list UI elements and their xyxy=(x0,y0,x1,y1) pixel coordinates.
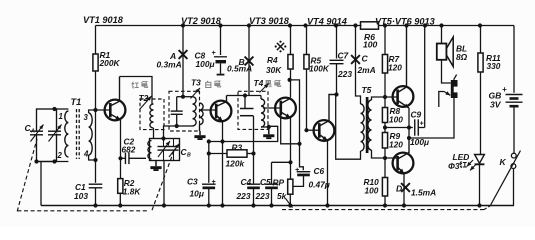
svg-text:+: + xyxy=(212,50,216,57)
wire: tank to ground bus xyxy=(163,161,165,206)
variable capacitor C1a main gang xyxy=(30,125,44,142)
wire: B+ top supply rail xyxy=(96,25,515,27)
battery GB 3V xyxy=(489,91,523,154)
wire: VT1 emitter down xyxy=(118,120,122,161)
svg-text:+: + xyxy=(502,85,507,94)
wire: T5 primary bottom return to VT4 collector node xyxy=(336,95,361,160)
svg-text:K: K xyxy=(500,157,507,167)
svg-text:200K: 200K xyxy=(99,58,121,68)
label T1 xyxy=(71,97,82,107)
resistor R2 1.8K xyxy=(118,158,142,205)
wire: T3 secondary to ground symbol xyxy=(199,125,201,132)
svg-text:1: 1 xyxy=(59,112,63,121)
wire: R10 to bus xyxy=(384,196,386,206)
transformer T2 shield dashed box xyxy=(140,99,164,130)
wire: R11 to LED xyxy=(480,72,482,155)
T3 internal capacitor xyxy=(171,97,183,126)
wire: rail to C8 xyxy=(220,26,222,56)
svg-text:223: 223 xyxy=(337,69,352,79)
label Cb xyxy=(181,147,192,159)
junction dots on ground bus xyxy=(93,203,481,207)
wire: rail to T5 primary top xyxy=(356,26,361,105)
transistor VT2 xyxy=(211,96,232,122)
resistor R5 100K xyxy=(304,55,330,74)
transformer T4 primary winding xyxy=(261,96,265,128)
wire: T3 secondary tap to VT2 base xyxy=(200,109,217,111)
wire: C6 bottom to RP wiper xyxy=(293,175,304,186)
svg-text:+: + xyxy=(212,179,216,186)
LED diode xyxy=(467,155,485,171)
transistor VT6 xyxy=(393,138,414,174)
oscillator tank winding xyxy=(148,141,152,160)
svg-text:3: 3 xyxy=(84,113,89,122)
svg-text:T1: T1 xyxy=(71,97,82,107)
transformer T1 core xyxy=(77,109,80,159)
wire: VT6 collector to midpoint xyxy=(407,128,411,141)
svg-text:0.5mA: 0.5mA xyxy=(227,64,252,74)
svg-text:2mA: 2mA xyxy=(357,65,376,75)
capacitor C7 223 xyxy=(330,51,353,80)
ground symbol below T3 xyxy=(194,131,205,140)
transformer T3 shield dashed box xyxy=(169,91,200,131)
wire: rail to R4 xyxy=(290,26,292,55)
capacitor C4 223 xyxy=(236,154,261,206)
dashed gang link diagonal to C1a xyxy=(17,139,37,211)
transistor VT3 xyxy=(275,98,296,119)
wire: base node down to T1 pin4 node xyxy=(93,110,97,162)
svg-text:T4: T4 xyxy=(254,78,264,88)
test point C 2mA xyxy=(351,54,376,76)
wire: rail to T3 through test point A xyxy=(182,26,184,97)
resistor R4 30K xyxy=(266,55,293,76)
speaker BL 8ohm xyxy=(437,37,468,67)
dashed gang link diagonal to C1b xyxy=(152,148,175,210)
svg-text:0.47μ: 0.47μ xyxy=(309,180,330,190)
junction dots on rail xyxy=(181,23,482,27)
svg-text:R3: R3 xyxy=(232,143,243,153)
tuning gang loop box xyxy=(34,107,68,164)
transformer T1 primary winding xyxy=(65,111,69,157)
resistor R11 330 xyxy=(478,53,501,72)
svg-text:VT1 9018: VT1 9018 xyxy=(83,15,124,25)
svg-text:10μ: 10μ xyxy=(190,189,204,199)
wire: rail to T4 through test point B xyxy=(248,26,250,96)
svg-text:C7: C7 xyxy=(338,51,349,61)
transformer T1 secondary winding xyxy=(89,113,93,155)
T4 internal top wire xyxy=(242,93,262,97)
transformer T3 secondary winding xyxy=(200,103,204,125)
wire: VT5 emitter to midpoint xyxy=(407,108,411,130)
svg-text:VT4 9014: VT4 9014 xyxy=(307,17,347,27)
svg-text:C3: C3 xyxy=(187,177,198,187)
wire: speaker to jack xyxy=(442,60,451,83)
wire: T1 secondary bottom to pin4 node xyxy=(89,155,96,160)
svg-text:30K: 30K xyxy=(266,65,282,75)
svg-text:100: 100 xyxy=(363,40,378,50)
wire: LED to bus xyxy=(479,164,481,205)
capacitor C6 0.47u xyxy=(295,166,330,190)
wire: VT1 bias branch from rail xyxy=(95,26,97,55)
transistor VT4 xyxy=(314,95,337,141)
wire: VT6 base node down to R10 xyxy=(384,158,386,178)
svg-text:RP: RP xyxy=(273,178,285,188)
wire: C5 top to VT3 emitter node xyxy=(272,160,293,164)
pin 1 xyxy=(59,112,63,121)
T3 internal bottom wire xyxy=(175,124,193,128)
svg-text:C: C xyxy=(362,54,369,64)
wire: VT3 base feedback wire xyxy=(281,115,300,144)
T2 tuning arrow xyxy=(140,96,152,110)
wire: jack to output midpoint xyxy=(409,98,454,138)
svg-text:C5: C5 xyxy=(260,177,271,187)
svg-text:2: 2 xyxy=(57,151,63,160)
resistor R10 100 xyxy=(364,177,388,196)
transistor VT1 xyxy=(105,77,126,121)
wire: T2 winding bottom into oscillator tank xyxy=(153,128,155,139)
dashed gang link line left xyxy=(17,210,147,212)
ground symbol below T4 xyxy=(263,127,274,139)
switch K xyxy=(491,151,521,206)
pin 2 xyxy=(57,151,63,160)
label LED xyxy=(453,152,470,162)
label T3 xyxy=(191,78,201,88)
T4 tuning arrow xyxy=(260,84,269,93)
svg-text:120: 120 xyxy=(389,140,403,150)
svg-text:682: 682 xyxy=(122,145,136,155)
svg-text:1.8K: 1.8K xyxy=(123,187,142,197)
wire: node to C1 xyxy=(95,160,97,183)
wire: R7 to VT5 base wire xyxy=(383,73,387,99)
wire: C7 to VT4 collector node xyxy=(334,64,338,97)
label black core (heise) xyxy=(265,80,281,87)
capacitor C9 100u xyxy=(385,110,429,148)
label white core (baise) xyxy=(206,81,221,88)
transformer T4 shield dashed box xyxy=(238,91,268,129)
wire: VT2 emitter down to bus xyxy=(220,121,224,205)
label red core (hongse) xyxy=(132,81,148,88)
transistor VT5 xyxy=(393,26,414,109)
capacitor C3 10u xyxy=(187,177,216,206)
wire: R9 to VT6 base wire xyxy=(383,148,387,160)
wire: T5 secondary top to VT5 base xyxy=(372,97,398,100)
label VT5 VT6 9013 xyxy=(375,17,435,27)
wire: VT4 base wire xyxy=(307,129,320,131)
wire: rail right edge down to battery xyxy=(513,26,515,93)
label T2 xyxy=(139,93,149,103)
svg-text:120k: 120k xyxy=(226,159,245,169)
jack switch contact xyxy=(439,91,451,107)
resistor R8 100 xyxy=(382,97,403,125)
label T4 xyxy=(254,78,264,88)
wire: rail to speaker xyxy=(441,26,443,44)
wire: rail to R11 xyxy=(480,26,482,54)
svg-text:C6: C6 xyxy=(314,166,325,176)
capacitor C2 682 xyxy=(121,137,147,165)
svg-text:T3: T3 xyxy=(191,78,201,88)
wire: gang box to ground bus xyxy=(40,162,42,206)
reference mark near R4 xyxy=(275,41,287,53)
test point A 0.3mA xyxy=(157,50,188,69)
oscillator tank loop box xyxy=(150,136,180,160)
label battery plus xyxy=(502,85,507,94)
capacitor C5 223 xyxy=(255,162,279,205)
wire: T3 bottom out to oscillator tank top xyxy=(164,126,177,139)
label VT3 9018 xyxy=(249,16,290,26)
label VT1 9018 xyxy=(83,15,124,25)
wire: C9 to rail xyxy=(424,26,426,128)
svg-text:100: 100 xyxy=(389,115,403,125)
wire: T4 winding bottom to ground xyxy=(261,125,271,129)
svg-text:100K: 100K xyxy=(309,64,330,74)
svg-text:100μ: 100μ xyxy=(196,59,215,69)
wire: R8 R9 junction xyxy=(383,123,387,133)
wire: VT1 collector to T2 xyxy=(120,77,153,105)
svg-text:120: 120 xyxy=(388,63,402,73)
svg-text:223: 223 xyxy=(255,191,270,201)
wire: rail to C7 xyxy=(336,26,338,59)
wire: R5 to VT4 base node xyxy=(304,69,308,132)
wire: R4 to VT3 collector xyxy=(290,69,292,98)
capacitor C8 100u xyxy=(195,50,228,75)
svg-text:VT2 9018: VT2 9018 xyxy=(181,16,222,26)
resistor R1 200K xyxy=(93,50,121,71)
wire: rail to R7 xyxy=(384,26,386,55)
svg-text:103: 103 xyxy=(74,191,88,201)
svg-text:5k: 5k xyxy=(277,191,287,201)
transformer T3 primary winding xyxy=(193,97,197,126)
resistor R6 on rail xyxy=(361,22,379,50)
wire: VT3 emitter down to RP xyxy=(290,118,292,179)
svg-text:R4: R4 xyxy=(267,55,278,65)
T3 internal top wire xyxy=(177,95,193,99)
svg-text:+: + xyxy=(295,167,299,174)
svg-text:1.5mA: 1.5mA xyxy=(411,188,436,198)
svg-text:223: 223 xyxy=(236,191,251,201)
variable capacitor C1a trimmer xyxy=(48,125,62,142)
capacitor C1 103 xyxy=(74,182,102,206)
svg-text:B: B xyxy=(187,153,191,159)
svg-text:8Ω: 8Ω xyxy=(456,52,468,62)
variable capacitor C1b trimmer xyxy=(169,139,180,161)
wire: T5 secondary bottom to VT6 base xyxy=(372,150,398,158)
resistor R7 120 xyxy=(382,54,402,73)
svg-text:T5: T5 xyxy=(362,85,372,95)
svg-text:100: 100 xyxy=(365,186,379,196)
T4 internal capacitor xyxy=(240,96,254,116)
svg-text:330: 330 xyxy=(487,61,501,71)
label VT4 9014 xyxy=(307,17,347,27)
svg-text:+: + xyxy=(420,121,424,128)
wire: switch to bus corner xyxy=(513,169,515,206)
wire: ground bus xyxy=(41,205,514,207)
wire: T4 internal cap column down to R3 C4 node xyxy=(251,116,255,156)
svg-text:C4: C4 xyxy=(241,177,252,187)
variable capacitor C1b main gang xyxy=(158,139,171,161)
wire: VT3 collector node to C6 riser xyxy=(288,78,304,170)
svg-text:C9: C9 xyxy=(411,110,422,120)
svg-text:3V: 3V xyxy=(490,100,502,110)
label Ca xyxy=(25,123,36,135)
wire: AGC feedback from T4 bottom to C3 column xyxy=(207,126,278,143)
wire: C3 column xyxy=(207,142,211,183)
T3 tuning arrow xyxy=(191,88,201,99)
label T5 xyxy=(362,85,372,95)
test point D 1.5mA xyxy=(396,183,436,197)
potentiometer RP 5k xyxy=(273,178,293,206)
earphone jack xyxy=(451,75,458,98)
label phi3 red xyxy=(448,161,467,171)
label RP mechanical link xyxy=(286,199,293,208)
svg-text:Φ3: Φ3 xyxy=(448,161,460,171)
wire: VT6 emitter to bus through test point D xyxy=(403,174,405,206)
wire: VT2 collector to T4 node xyxy=(227,95,242,97)
resistor R9 120 xyxy=(382,131,403,150)
resistor R3 120k xyxy=(209,143,254,169)
test point B 0.5mA xyxy=(227,57,253,74)
transformer T2 winding xyxy=(150,104,154,128)
pin 3 xyxy=(84,113,89,122)
transformer T5 secondary winding xyxy=(368,100,372,150)
label VT2 9018 xyxy=(181,16,222,26)
svg-text:VT3 9018: VT3 9018 xyxy=(249,16,290,26)
wire: T1 secondary top to VT1 base xyxy=(89,110,111,113)
svg-text:0.3mA: 0.3mA xyxy=(157,60,182,70)
ground symbol below oscillator tank xyxy=(150,161,161,172)
wire: R1 to VT1 base node xyxy=(93,71,97,112)
transformer T5 core xyxy=(366,97,369,153)
pin 4 xyxy=(83,150,89,159)
wire: rail to R5 xyxy=(306,26,308,55)
svg-text:A: A xyxy=(30,129,35,135)
dashed volume-switch link line xyxy=(282,206,491,210)
wire: VT4 emitter to bus xyxy=(327,141,329,206)
transformer T5 primary winding xyxy=(361,104,365,151)
wire: T4 to VT3 base xyxy=(263,107,281,109)
